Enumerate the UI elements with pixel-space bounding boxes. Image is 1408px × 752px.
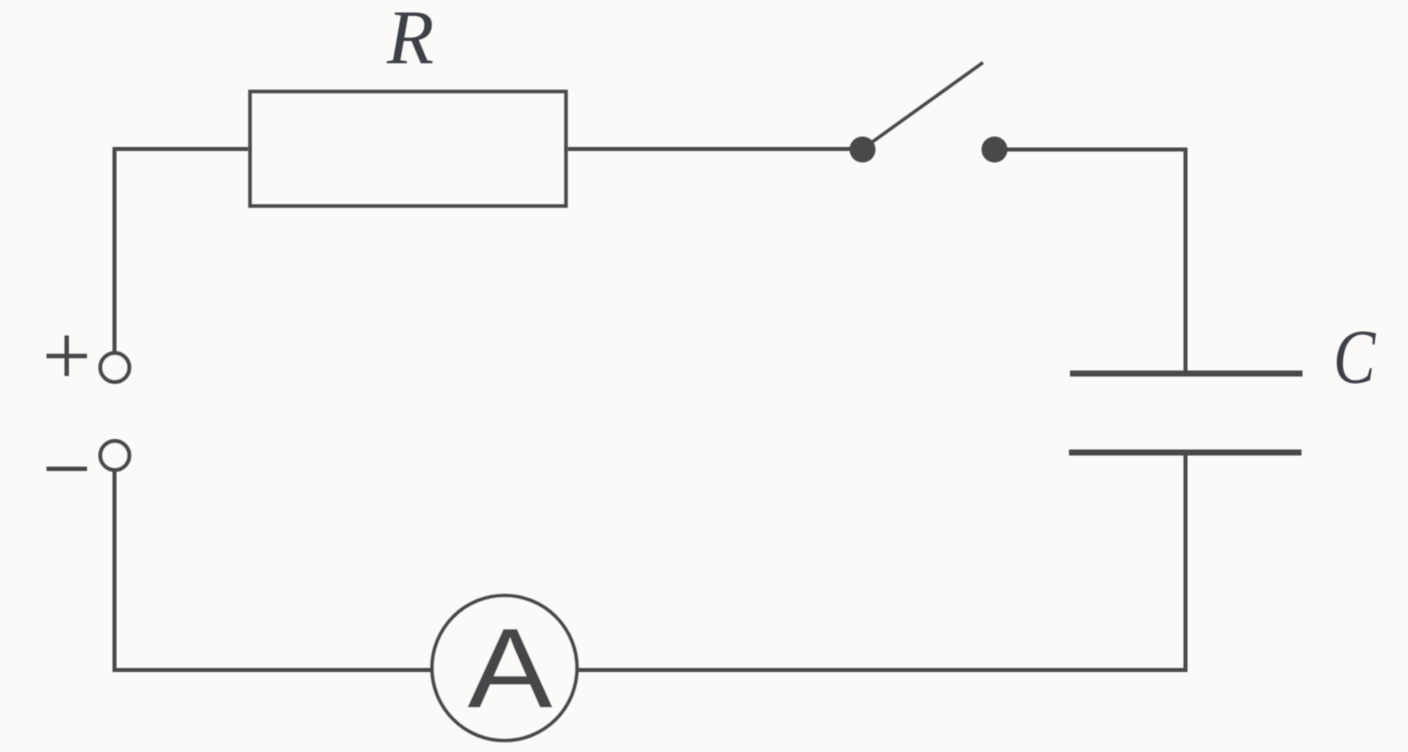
capacitor C bottom plate [1069, 450, 1302, 456]
switch lever [863, 63, 984, 150]
ammeter letter A [467, 605, 553, 732]
wire: + terminal up, top-left corner, to resistor [115, 149, 249, 352]
- terminal circle [100, 441, 129, 470]
svg-text:A: A [467, 605, 553, 732]
wire: ammeter left, bottom-left corner, up to - terminal [115, 470, 434, 670]
wire: capacitor down, bottom-right corner, to ammeter [576, 453, 1186, 671]
+ sign [47, 336, 88, 377]
+ terminal circle [100, 353, 129, 382]
wire: switch to top-right corner and down to capacitor [995, 150, 1186, 372]
switch contact dot (right) [982, 137, 1008, 163]
- sign [47, 467, 88, 471]
ammeter A (circle) [432, 596, 577, 741]
resistor R (box) [250, 92, 566, 207]
svg-text:R: R [386, 0, 434, 80]
wire: resistor to switch [568, 147, 862, 151]
switch contact dot (left) [850, 137, 876, 163]
capacitor C top plate [1070, 371, 1303, 377]
svg-text:C: C [1333, 315, 1376, 400]
label C [1333, 315, 1376, 400]
